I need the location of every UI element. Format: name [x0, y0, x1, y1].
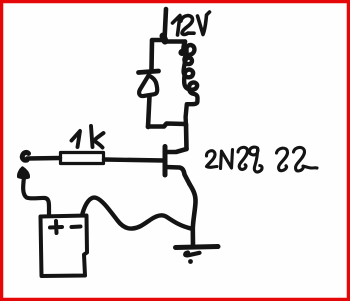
digit 2 — [181, 16, 194, 35]
wire top node to coil branch — [165, 42, 185, 50]
wire bottom of diode/coil parallel combo — [148, 124, 185, 127]
letter k — [91, 126, 104, 148]
label 2N2222 — [206, 147, 317, 172]
ground bar — [176, 247, 219, 248]
probe hook at input wire end — [22, 152, 28, 160]
relay coil L1 scribbled loops — [184, 42, 198, 127]
battery BT1 box — [41, 216, 88, 277]
wire +12V vertical supply lead — [165, 9, 167, 40]
wire emitter to ground — [190, 184, 196, 246]
blob at coil start — [178, 49, 185, 56]
wire top node to diode branch — [152, 40, 165, 69]
glyph N — [221, 150, 233, 169]
wire base input — [27, 156, 60, 161]
diode D1 anode lead — [148, 96, 150, 127]
diode D1 cathode bar — [139, 71, 159, 73]
transistor Q1 collector lead — [167, 149, 187, 152]
battery plus sign — [50, 221, 62, 233]
glyph 2 with curl — [238, 147, 248, 169]
ground second stroke with curl — [185, 253, 199, 256]
glyph 9 loopy — [250, 147, 263, 172]
wire resistor to base — [104, 160, 164, 161]
label 12V — [173, 12, 210, 35]
probe arrow head — [18, 168, 29, 179]
digit 1 — [72, 131, 81, 147]
label 1k — [72, 126, 104, 148]
resistor R1 body — [61, 153, 104, 164]
ground dot — [188, 259, 193, 264]
battery minus sign — [72, 225, 81, 230]
letter V — [198, 12, 210, 35]
digit 1 — [173, 16, 181, 36]
transistor Q1 emitter lead — [166, 167, 190, 184]
transistor Q1 base bar — [163, 147, 168, 176]
diode D1 triangle — [139, 76, 157, 97]
wire battery negative wavy to emitter/ground node — [83, 198, 193, 229]
probe arrow shaft — [23, 177, 49, 215]
wire collector drop — [184, 124, 189, 149]
node junction blob at supply — [163, 36, 165, 41]
glyph 2 — [206, 151, 217, 168]
glyph 2 with tail — [294, 147, 318, 171]
glyph 2 — [277, 148, 288, 171]
